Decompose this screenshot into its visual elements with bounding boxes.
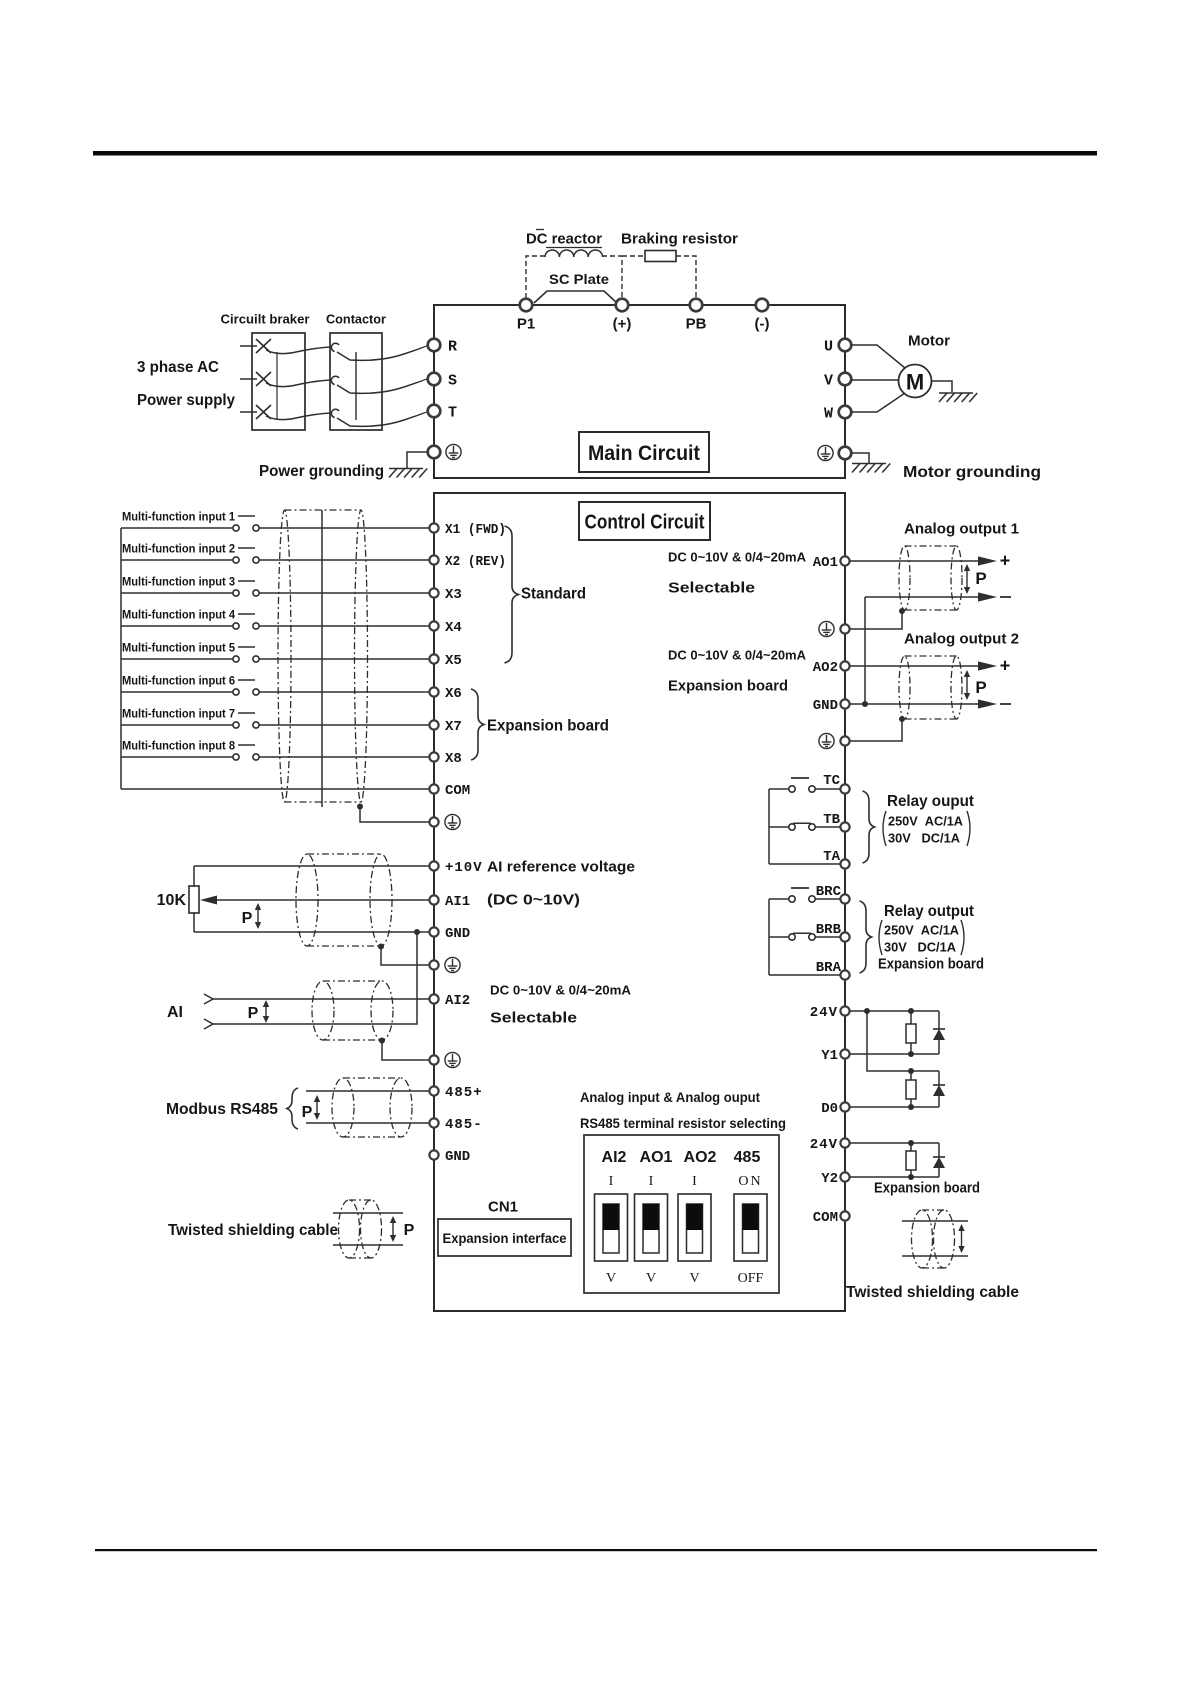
arrow AI pair spacing xyxy=(263,1000,269,1023)
svg-text:Multi-function input 2: Multi-function input 2 xyxy=(122,541,235,555)
svg-text:485-: 485- xyxy=(445,1117,483,1133)
dashed wire (+) to braking resistor xyxy=(622,255,645,257)
svg-text:Braking resistor: Braking resistor xyxy=(621,230,738,247)
svg-text:AI: AI xyxy=(167,1004,183,1021)
svg-text:P: P xyxy=(975,569,986,588)
svg-text:Multi-function input 4: Multi-function input 4 xyxy=(122,607,235,621)
svg-text:X4: X4 xyxy=(445,620,462,636)
terminal 485+ xyxy=(429,1086,438,1095)
bottom horizontal rule xyxy=(95,1549,1097,1551)
junction Y1 resistor bottom xyxy=(908,1051,914,1057)
arrow AO2 plus xyxy=(978,661,997,670)
ground symbol main right xyxy=(818,445,833,460)
terminal Y2 xyxy=(840,1172,849,1181)
terminal AI2 xyxy=(429,994,438,1003)
svg-text:Expansion interface: Expansion interface xyxy=(443,1230,567,1246)
svg-text:P: P xyxy=(302,1104,313,1121)
arrow AI input top chevron xyxy=(204,994,213,1004)
dashed wire braking resistor to PB xyxy=(676,256,696,298)
switch input 3 xyxy=(233,590,239,596)
svg-text:P: P xyxy=(404,1222,415,1239)
svg-text:Multi-function input 3: Multi-function input 3 xyxy=(122,574,235,588)
svg-text:D0: D0 xyxy=(821,1101,838,1117)
junction AO2 shield drain xyxy=(899,716,905,722)
svg-text:Y1: Y1 xyxy=(821,1048,838,1064)
junction Y2 resistor bottom xyxy=(908,1174,914,1180)
svg-text:W: W xyxy=(824,405,833,422)
svg-text:SC Plate: SC Plate xyxy=(549,271,609,287)
terminal 485- xyxy=(429,1118,438,1127)
svg-text:3 phase AC: 3 phase AC xyxy=(137,359,219,376)
terminal R xyxy=(428,339,441,352)
terminal 24V 1 xyxy=(840,1006,849,1015)
control ground terminal left 3 xyxy=(429,1055,438,1064)
svg-text:S: S xyxy=(448,372,457,389)
arrow AI input bottom chevron xyxy=(204,1019,213,1029)
wire T phase stub xyxy=(240,411,257,413)
svg-text:P: P xyxy=(975,678,986,697)
svg-text:ON: ON xyxy=(738,1174,762,1189)
svg-text:X3: X3 xyxy=(445,587,462,603)
svg-text:CN1: CN1 xyxy=(488,1198,518,1215)
svg-text:BRC: BRC xyxy=(816,884,842,900)
cable shield AO1 xyxy=(899,546,962,610)
wire motor grounding xyxy=(851,453,869,463)
resistor Y1 pullup xyxy=(910,1011,912,1024)
terminal X5 xyxy=(429,654,438,663)
terminal P1 xyxy=(520,299,533,312)
switch input 5 xyxy=(233,656,239,662)
wire AO1 plus xyxy=(850,560,978,562)
control ground terminal left 1 xyxy=(429,817,438,826)
circuit breaker box xyxy=(252,333,305,430)
switch input 6 xyxy=(233,689,239,695)
wire breaker blade T xyxy=(266,413,330,420)
wire power ground xyxy=(407,452,428,468)
diode D0 clamp xyxy=(938,1071,940,1085)
svg-text:X8: X8 xyxy=(445,751,462,767)
ground symbol control left 2 xyxy=(445,957,460,972)
svg-text:10K: 10K xyxy=(157,892,187,909)
svg-text:Modbus RS485: Modbus RS485 xyxy=(166,1101,278,1118)
svg-text:GND: GND xyxy=(445,926,470,942)
svg-text:T: T xyxy=(448,404,457,421)
motor M xyxy=(899,365,932,398)
terminal 24V 2 xyxy=(840,1138,849,1147)
terminal X8 xyxy=(429,752,438,761)
ground symbol control right 1 xyxy=(819,621,834,636)
breaker linkage bar xyxy=(276,352,278,420)
arrow AO2 pair spacing xyxy=(964,670,970,700)
svg-text:V: V xyxy=(646,1271,656,1286)
contactor contact hook S xyxy=(331,376,339,384)
terminal W xyxy=(839,406,852,419)
svg-text:Analog input & Analog ouput: Analog input & Analog ouput xyxy=(580,1089,760,1105)
wire 24V to second block xyxy=(867,1011,939,1071)
svg-text:Expansion board: Expansion board xyxy=(487,718,609,735)
terminal X4 xyxy=(429,621,438,630)
cable shield potentiometer xyxy=(296,854,392,946)
wire U to motor xyxy=(851,345,905,368)
junction shield to ground xyxy=(357,804,363,810)
wire +10V row xyxy=(194,865,429,867)
svg-text:TB: TB xyxy=(823,812,840,828)
cable symbol twisted shielding left xyxy=(333,1212,403,1214)
terminal X3 xyxy=(429,588,438,597)
relay bus TC-TA xyxy=(768,789,770,864)
SC Plate link xyxy=(534,291,617,303)
svg-text:AO2: AO2 xyxy=(813,660,838,676)
svg-text:OFF: OFF xyxy=(738,1271,764,1286)
Control Circuit label box xyxy=(579,502,710,540)
svg-text:485+: 485+ xyxy=(445,1085,483,1101)
svg-text:Expansion board: Expansion board xyxy=(874,1179,980,1196)
brace relay output 2 xyxy=(860,901,872,973)
svg-text:Multi-function input 7: Multi-function input 7 xyxy=(122,706,235,720)
wire switch 1 to terminal X1 xyxy=(259,527,429,529)
svg-text:Selectable: Selectable xyxy=(668,579,755,596)
wire relay common BRA xyxy=(769,974,840,976)
terminal BRC xyxy=(840,894,849,903)
power ground terminal xyxy=(428,446,441,459)
ground motor grounding hatch xyxy=(852,464,890,473)
svg-text:Multi-function input 5: Multi-function input 5 xyxy=(122,640,235,654)
terminal PB xyxy=(690,299,703,312)
arrow AO1 plus xyxy=(978,556,997,565)
svg-text:DC 0~10V & 0/4~20mA: DC 0~10V & 0/4~20mA xyxy=(490,983,632,998)
wire contactor blade S to terminal xyxy=(337,378,428,393)
Main Circuit label box xyxy=(579,432,709,472)
wire input 5 to switch xyxy=(121,658,233,660)
svg-text:DC reactor: DC reactor xyxy=(526,230,602,247)
label relay 2 ratings xyxy=(879,920,882,955)
svg-text:Multi-function input 1: Multi-function input 1 xyxy=(122,509,235,523)
svg-text:AO1: AO1 xyxy=(640,1149,673,1166)
wire contactor blade R to terminal xyxy=(337,345,428,360)
wire input 2 to switch xyxy=(121,559,233,561)
wire D0 rail xyxy=(850,1106,939,1108)
brace Standard group xyxy=(505,526,519,663)
junction 24V branch xyxy=(864,1008,870,1014)
wire AO1 shield to ground terminal xyxy=(850,611,902,629)
switch input 2 xyxy=(233,557,239,563)
svg-text:TC: TC xyxy=(823,773,840,789)
wire AO2 plus xyxy=(850,665,978,667)
main circuit enclosure box xyxy=(434,305,845,478)
switch input 1 xyxy=(233,525,239,531)
wire shield center line xyxy=(321,510,323,807)
svg-text:AO1: AO1 xyxy=(813,555,838,571)
breaker contact X R xyxy=(256,339,271,353)
terminal +10V xyxy=(429,861,438,870)
wire COM row xyxy=(121,788,429,790)
svg-text:(-): (-) xyxy=(755,315,770,332)
wire switch 6 to terminal X6 xyxy=(259,691,429,693)
control circuit enclosure box xyxy=(434,493,845,1311)
wire V to motor xyxy=(851,379,898,381)
brace relay output 1 xyxy=(863,791,875,863)
wire W to motor xyxy=(851,393,905,412)
svg-text:Standard: Standard xyxy=(521,586,586,603)
control ground terminal right 2 xyxy=(840,736,849,745)
wire input 3 to switch xyxy=(121,592,233,594)
control ground terminal left 2 xyxy=(429,960,438,969)
svg-text:RS485 terminal resistor select: RS485 terminal resistor selecting xyxy=(580,1115,786,1131)
wire AI2 row xyxy=(213,998,429,1000)
relay bus BRC-BRA xyxy=(768,899,770,975)
wire input 6 to switch xyxy=(121,691,233,693)
svg-text:Multi-function input 8: Multi-function input 8 xyxy=(122,738,235,752)
dashed wire P1 to DC reactor xyxy=(526,256,545,298)
wire 24V rail 2 xyxy=(850,1142,939,1144)
wire input 1 to switch xyxy=(121,527,233,529)
svg-text:Motor grounding: Motor grounding xyxy=(903,464,1041,481)
wire switch 5 to terminal X5 xyxy=(259,658,429,660)
svg-text:Control Circuit: Control Circuit xyxy=(585,512,705,534)
svg-text:24V: 24V xyxy=(810,1137,838,1153)
svg-text:P: P xyxy=(242,910,253,927)
arrow twisted cable spacing right xyxy=(958,1224,964,1253)
multi-function input left bus xyxy=(120,528,122,789)
cable shield AO2 xyxy=(899,656,962,719)
svg-text:485: 485 xyxy=(734,1149,761,1166)
svg-text:+10V: +10V xyxy=(445,860,483,876)
svg-text:(+): (+) xyxy=(613,315,632,332)
motor ground terminal xyxy=(839,447,852,460)
svg-text:Power supply: Power supply xyxy=(137,392,235,409)
svg-text:(DC 0~10V): (DC 0~10V) xyxy=(487,891,580,908)
arrow twisted cable spacing left xyxy=(390,1216,396,1242)
terminal TC xyxy=(840,784,849,793)
svg-text:M: M xyxy=(906,369,924,394)
svg-text:Expansion board: Expansion board xyxy=(878,955,984,972)
DIP switch 485 xyxy=(734,1194,767,1261)
svg-text:GND: GND xyxy=(813,698,838,714)
wire input 7 to switch xyxy=(121,724,233,726)
wire AO1 minus xyxy=(865,596,978,598)
wire switch 7 to terminal X7 xyxy=(259,724,429,726)
cable shield AI2 xyxy=(312,981,393,1040)
svg-text:Relay output: Relay output xyxy=(884,903,975,920)
inductor DC reactor xyxy=(545,250,603,257)
terminal GND 2 xyxy=(429,1150,438,1159)
wire AI pair lower to GND xyxy=(213,932,417,1024)
svg-text:X2 (REV): X2 (REV) xyxy=(445,554,506,570)
DIP switch AO1 xyxy=(635,1194,668,1261)
terminal BRA xyxy=(840,970,849,979)
ground motor frame hatch xyxy=(939,393,977,402)
wire input 8 to switch xyxy=(121,756,233,758)
contactor box xyxy=(330,333,382,430)
control ground terminal right 1 xyxy=(840,624,849,633)
svg-text:COM: COM xyxy=(813,1210,838,1226)
wire breaker blade R xyxy=(266,347,330,354)
svg-text:Twisted shielding cable: Twisted shielding cable xyxy=(846,1284,1019,1301)
relay contact BRB xyxy=(769,936,789,938)
svg-text:AI2: AI2 xyxy=(602,1149,627,1166)
svg-text:+: + xyxy=(1000,550,1011,570)
switch input 7 xyxy=(233,722,239,728)
svg-text:P: P xyxy=(248,1005,259,1022)
terminal COM right xyxy=(840,1211,849,1220)
wire Y1 rail xyxy=(850,1053,939,1055)
terminal GND right xyxy=(840,699,849,708)
ground symbol main left xyxy=(446,444,461,459)
arrow RS485 pair spacing xyxy=(314,1095,320,1120)
wire switch 8 to terminal X8 xyxy=(259,756,429,758)
switch input 8 xyxy=(233,754,239,760)
contactor contact hook T xyxy=(331,409,339,417)
switch input 4 xyxy=(233,623,239,629)
contactor contact hook R xyxy=(331,343,339,351)
svg-text:I: I xyxy=(609,1174,614,1189)
wire R phase stub xyxy=(240,345,257,347)
svg-text:Expansion board: Expansion board xyxy=(668,677,788,694)
terminal D0 xyxy=(840,1102,849,1111)
terminal AO1 xyxy=(840,556,849,565)
terminal T xyxy=(428,405,441,418)
svg-text:BRB: BRB xyxy=(816,922,842,938)
junction GND vertical xyxy=(862,701,868,707)
wire switch 4 to terminal X4 xyxy=(259,625,429,627)
svg-text:Multi-function input 6: Multi-function input 6 xyxy=(122,673,235,687)
junction AI2 shield drain xyxy=(379,1038,385,1044)
terminal U xyxy=(839,339,852,352)
terminal X2 xyxy=(429,555,438,564)
terminal BRB xyxy=(840,932,849,941)
svg-text:Circuilt braker: Circuilt braker xyxy=(221,312,310,327)
svg-text:V: V xyxy=(606,1271,616,1286)
dashed wire reactor to (+) xyxy=(602,256,622,298)
svg-text:DC 0~10V & 0/4~20mA: DC 0~10V & 0/4~20mA xyxy=(668,648,807,663)
svg-text:Relay ouput: Relay ouput xyxy=(887,793,975,810)
svg-text:X6: X6 xyxy=(445,686,462,702)
terminal (-) xyxy=(756,299,769,312)
terminal V xyxy=(839,373,852,386)
terminal AI1 xyxy=(429,895,438,904)
cable shield multi-function inputs xyxy=(278,510,368,802)
svg-text:24V: 24V xyxy=(810,1005,838,1021)
svg-text:250V AC/1A: 250V AC/1A xyxy=(888,814,964,829)
relay contact BRC xyxy=(769,898,789,900)
terminal X7 xyxy=(429,720,438,729)
svg-text:P1: P1 xyxy=(517,315,535,332)
svg-text:AI reference voltage: AI reference voltage xyxy=(487,858,635,875)
breaker contact X T xyxy=(256,405,271,419)
terminal TA xyxy=(840,859,849,868)
ground symbol control right 2 xyxy=(819,733,834,748)
svg-text:AI1: AI1 xyxy=(445,894,470,910)
svg-text:GND: GND xyxy=(445,1149,470,1165)
wire shield drain to ground terminal xyxy=(360,807,429,823)
ground symbol control left 1 xyxy=(445,814,460,829)
junction pot shield drain xyxy=(378,944,384,950)
top horizontal rule xyxy=(93,151,1097,156)
junction AO1 shield drain xyxy=(899,608,905,614)
wire switch 3 to terminal X3 xyxy=(259,592,429,594)
svg-text:30V DC/1A: 30V DC/1A xyxy=(888,831,961,846)
terminal AO2 xyxy=(840,661,849,670)
wire AI2 shield to ground terminal xyxy=(382,1041,429,1061)
svg-text:V: V xyxy=(824,372,833,389)
DIP switch AO2 xyxy=(678,1194,711,1261)
junction 24V 2 resistor top xyxy=(908,1140,914,1146)
cable shield RS485 xyxy=(332,1078,412,1137)
terminal GND 1 xyxy=(429,927,438,936)
svg-text:Twisted shielding cable: Twisted shielding cable xyxy=(168,1222,338,1239)
wire breaker blade S xyxy=(266,380,330,387)
diode Y1 clamp xyxy=(938,1011,940,1029)
DIP switch box xyxy=(584,1135,779,1293)
wire 485- row xyxy=(306,1122,429,1124)
DIP switch AI2 xyxy=(595,1194,628,1261)
wire 485+ row xyxy=(306,1090,429,1092)
breaker contact X S xyxy=(256,372,271,386)
wire GND row left xyxy=(194,931,429,933)
svg-text:DC 0~10V & 0/4~20mA: DC 0~10V & 0/4~20mA xyxy=(668,550,807,565)
wire 24V rail 1 xyxy=(850,1010,939,1012)
label relay 1 ratings xyxy=(883,811,886,846)
arrow pot pair spacing xyxy=(255,903,261,929)
svg-text:Power grounding: Power grounding xyxy=(259,463,384,480)
terminal X1 xyxy=(429,523,438,532)
svg-text:Y2: Y2 xyxy=(821,1171,838,1187)
resistor D0 pullup xyxy=(910,1071,912,1080)
resistor Y2 pullup xyxy=(910,1143,912,1151)
svg-text:V: V xyxy=(689,1271,699,1286)
resistor braking resistor xyxy=(645,251,676,262)
svg-text:+: + xyxy=(1000,655,1011,675)
terminal X6 xyxy=(429,687,438,696)
arrow AO1 minus xyxy=(978,592,997,601)
potentiometer 10K body xyxy=(193,866,195,932)
contactor linkage bar xyxy=(355,352,357,420)
junction AI lower at GND xyxy=(414,929,420,935)
wire Y2 rail xyxy=(850,1176,939,1178)
svg-text:X1 (FWD): X1 (FWD) xyxy=(445,522,506,538)
svg-text:PB: PB xyxy=(686,315,707,332)
svg-text:Motor: Motor xyxy=(908,332,950,349)
wire AO1 minus to GND vertical xyxy=(864,597,866,704)
svg-text:R: R xyxy=(448,338,457,355)
wire switch 2 to terminal X2 xyxy=(259,559,429,561)
svg-text:U: U xyxy=(824,338,833,355)
cable symbol twisted shielding right xyxy=(902,1220,968,1222)
svg-text:AO2: AO2 xyxy=(684,1149,717,1166)
terminal Y1 xyxy=(840,1049,849,1058)
wire motor to frame ground xyxy=(932,381,953,392)
terminal COM xyxy=(429,784,438,793)
arrow AO1 pair spacing xyxy=(964,564,970,594)
wire S phase stub xyxy=(240,378,257,380)
wire input 4 to switch xyxy=(121,625,233,627)
ground symbol control left 3 xyxy=(445,1052,460,1067)
svg-text:X5: X5 xyxy=(445,653,462,669)
svg-text:30V DC/1A: 30V DC/1A xyxy=(884,940,957,955)
junction 24V resistor top xyxy=(908,1008,914,1014)
wire AO2 minus from GND xyxy=(850,703,978,705)
wire contactor blade T to terminal xyxy=(337,411,428,426)
svg-text:I: I xyxy=(692,1174,697,1189)
svg-text:AI2: AI2 xyxy=(445,993,470,1009)
svg-text:Analog output 1: Analog output 1 xyxy=(904,520,1019,537)
svg-text:Main Circuit: Main Circuit xyxy=(588,442,700,465)
diode Y2 clamp xyxy=(938,1143,940,1157)
wire AO2 shield to ground terminal xyxy=(850,719,902,741)
svg-text:Selectable: Selectable xyxy=(490,1009,577,1026)
svg-text:BRA: BRA xyxy=(816,960,842,976)
relay contact TC xyxy=(769,788,789,790)
